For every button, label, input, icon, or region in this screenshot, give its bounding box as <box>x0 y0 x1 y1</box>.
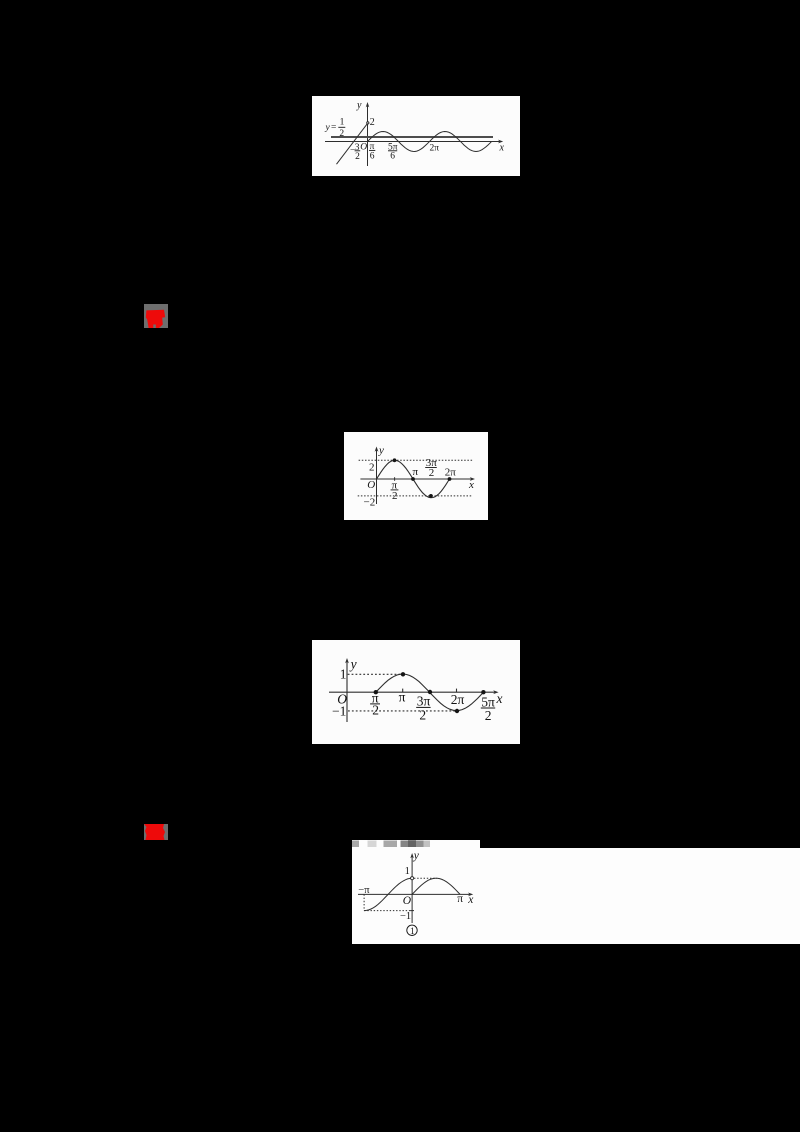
svg-text:−1: −1 <box>400 911 411 922</box>
svg-text:x: x <box>467 894 474 906</box>
svg-text:2: 2 <box>370 117 375 128</box>
svg-text:2: 2 <box>485 708 492 723</box>
tick at y=-1 <box>410 910 414 912</box>
label 3pi/2 <box>425 457 437 479</box>
svg-text:2: 2 <box>355 152 360 162</box>
svg-text:6: 6 <box>390 152 395 162</box>
dot at (2pi,-1) <box>455 709 459 713</box>
svg-text:1: 1 <box>405 866 410 877</box>
y-axis <box>410 853 414 923</box>
svg-text:=: = <box>331 123 336 133</box>
svg-text:2π: 2π <box>445 467 457 479</box>
svg-text:x: x <box>496 691 503 706</box>
svg-text:−2: −2 <box>364 497 376 509</box>
open circle at (0,2) <box>367 122 369 124</box>
graph image 2: y=2sin x <box>344 432 488 520</box>
dotted line y=2 <box>359 459 473 461</box>
dashed line y=1 <box>348 673 402 675</box>
label pi/6 <box>369 142 375 162</box>
x-axis <box>360 477 475 481</box>
svg-text:2π: 2π <box>430 143 440 153</box>
x-axis <box>358 893 473 897</box>
tick at 2pi <box>456 689 458 693</box>
dotted line y=-2 <box>358 495 473 497</box>
svg-text:2: 2 <box>372 702 379 717</box>
svg-text:y: y <box>378 445 384 457</box>
graph image 1: y=sin x with line y=1/2 and diagonal line <box>312 96 520 176</box>
svg-text:−π: −π <box>358 885 370 896</box>
svg-text:y: y <box>356 100 362 111</box>
graph image 3: shifted cosine with marked points <box>312 640 520 744</box>
label y=1/2 <box>325 118 346 139</box>
cropped gray text strip at top <box>352 840 430 847</box>
svg-text:π: π <box>457 893 463 905</box>
svg-text:O: O <box>360 142 367 152</box>
svg-text:2: 2 <box>392 490 398 502</box>
label pi/2 <box>370 690 380 717</box>
right branch y=sin x <box>412 878 460 894</box>
dot at (pi/2,2) <box>393 458 397 462</box>
y-axis <box>345 658 349 722</box>
label 5pi/6 <box>388 142 398 161</box>
graph image 4: piecewise cos/sin graph with white extension band <box>352 840 800 944</box>
dot at (2pi,0) <box>448 477 452 481</box>
diagonal line through (-3/2,0) and (0,2) <box>337 123 368 164</box>
dot at (5pi/2,0) <box>481 690 485 694</box>
line y=1/2 <box>331 136 493 138</box>
svg-text:O: O <box>337 692 347 707</box>
section icon 1: red glyph on gray square <box>144 304 168 328</box>
svg-text:2: 2 <box>369 461 375 473</box>
label pi/2 <box>391 479 399 502</box>
sine curve y=sin x <box>368 132 492 152</box>
svg-text:2: 2 <box>339 129 344 139</box>
curve y=2sin x <box>377 460 450 497</box>
dot at (pi/2,0) <box>374 690 378 694</box>
dashed line y=-1 <box>348 710 455 712</box>
svg-text:y: y <box>349 657 357 672</box>
dot at (pi,1) <box>401 672 405 676</box>
dotted line y=1 to peak <box>414 877 437 879</box>
label -3/2 <box>350 143 360 162</box>
tag circled 1 <box>407 925 417 937</box>
svg-text:1: 1 <box>340 118 345 128</box>
dotted horizontal y=-1 <box>364 910 411 912</box>
section icon 2: red glyph on gray square <box>144 824 168 840</box>
svg-text:y: y <box>413 850 420 862</box>
label 3pi/2 <box>416 694 430 723</box>
open circle at (0,1) <box>411 877 414 880</box>
label 5pi/2 <box>481 694 495 723</box>
x-axis <box>325 140 503 144</box>
curve <box>376 674 484 711</box>
dotted vertical at x=-pi <box>363 894 365 910</box>
svg-text:π: π <box>413 466 419 478</box>
dot at (3pi/2,0) <box>428 690 432 694</box>
svg-text:x: x <box>468 479 474 491</box>
svg-text:2π: 2π <box>451 692 465 707</box>
svg-text:1: 1 <box>410 927 415 937</box>
svg-text:π: π <box>399 690 406 705</box>
x-axis <box>329 690 499 694</box>
white notch strip <box>352 840 480 849</box>
y-axis <box>375 447 379 505</box>
dot at (pi,0) <box>411 477 415 481</box>
svg-text:2: 2 <box>419 707 426 722</box>
svg-text:x: x <box>499 142 505 153</box>
svg-text:2: 2 <box>429 467 435 479</box>
svg-text:O: O <box>403 895 412 907</box>
dot at (3pi/2,-2) <box>429 494 433 498</box>
svg-text:y: y <box>325 123 331 133</box>
svg-text:1: 1 <box>340 666 347 681</box>
svg-text:O: O <box>367 479 375 491</box>
svg-text:6: 6 <box>370 151 375 161</box>
y-axis <box>366 102 370 166</box>
white band extension <box>352 848 800 944</box>
left branch y=cos x <box>364 878 412 910</box>
tick at pi/2 <box>394 477 396 481</box>
tick at pi <box>402 689 404 693</box>
